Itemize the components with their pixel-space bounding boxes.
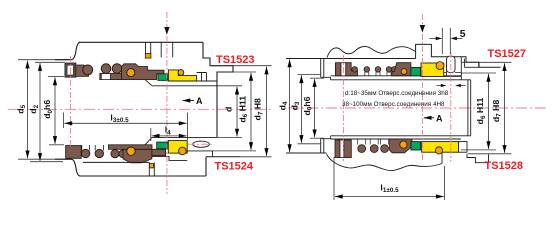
centerline left (8, 108, 273, 110)
svg-text:d2: d2 (28, 104, 40, 113)
spring coil 1 top (101, 64, 111, 74)
gland shelf bottom (206, 156, 240, 158)
spring 3 right (386, 67, 392, 73)
collar left brown bottom right (335, 140, 340, 158)
shaft top right (331, 79, 471, 81)
shaft end right (468, 80, 471, 136)
seat clamp lines top right (444, 59, 462, 77)
RIGHT upper assembly (335, 63, 420, 76)
seat block white bottom right (459, 142, 468, 153)
set screw slot top (146, 42, 151, 53)
svg-text:TS1527: TS1527 (488, 48, 527, 60)
spring 3 bottom right (390, 145, 398, 153)
face green bottom (157, 142, 168, 149)
collar right brown bottom right (344, 140, 352, 158)
gland right outline top right (461, 57, 479, 80)
seat yellow top (168, 70, 196, 81)
drive collar top (65, 63, 76, 77)
housing bottom-left curve step (72, 159, 207, 176)
collar coil bottom right (358, 139, 366, 145)
shaft chamfer top (145, 80, 152, 86)
svg-text:d7 H8: d7 H8 (253, 98, 265, 121)
spring 1 right (364, 67, 370, 73)
seat o-ring top right (436, 62, 444, 70)
spring base brown bottom (109, 145, 153, 150)
gland bore bottom (187, 151, 212, 157)
retainer brown right (392, 63, 411, 76)
set screw orange top (145, 54, 151, 59)
seat yellow top right (421, 63, 444, 77)
flush port slot top (161, 42, 173, 57)
spring coil 2 top (112, 64, 122, 74)
dim d6H11 right (461, 73, 496, 150)
collar screw bars top (66, 64, 68, 77)
spring cup white top (101, 74, 110, 80)
gland lug top right (416, 44, 501, 67)
drive lug brown top (76, 65, 89, 76)
svg-text:d: d (223, 107, 233, 112)
section arrow A left (183, 96, 204, 106)
retainer o-ring top (127, 69, 135, 77)
spring 1 bottom right (370, 139, 378, 145)
retainer brown bottom right (390, 139, 412, 153)
housing bore line bottom (83, 161, 149, 163)
dim d (223, 87, 237, 137)
wavy break outline top right (327, 46, 416, 57)
dim l1 (334, 157, 445, 200)
section arrow A right (424, 113, 443, 123)
sleeve outer top right (331, 75, 462, 77)
collar centerline red right (342, 55, 344, 161)
spring coil 2 bottom (95, 149, 103, 157)
svg-text:d4: d4 (277, 101, 289, 110)
collar left brown right (335, 63, 341, 76)
spring coil 4 bottom (119, 150, 127, 158)
housing top face line right (286, 58, 416, 60)
housing top-left curve step (72, 42, 81, 59)
collar slot right (341, 63, 346, 76)
wavy break outline bottom right (327, 154, 443, 171)
spring base brown top (100, 73, 125, 79)
lug coil top (83, 65, 93, 75)
pin centerline red (450, 52, 452, 162)
svg-text:l4: l4 (165, 125, 171, 137)
anti-rotation pin right (447, 56, 455, 73)
spring coil 3 bottom (111, 150, 119, 158)
sleeve step bottom (152, 157, 187, 161)
svg-text:TS1523: TS1523 (216, 54, 255, 66)
gland outer edge bottom (205, 157, 207, 176)
gland bottom steps right (442, 152, 489, 163)
svg-text:d0h6: d0h6 (42, 100, 54, 119)
svg-text:d:18~35мм Отверс.соединения 3h: d:18~35мм Отверс.соединения 3h8 (345, 90, 449, 97)
dim d0h6 (42, 77, 55, 143)
dim d5 (15, 61, 27, 159)
set screw orange bottom (149, 164, 153, 168)
shaft surface bottom-right (152, 136, 217, 138)
dim l4 (151, 125, 187, 141)
seat o-ring bottom right (435, 147, 442, 154)
svg-text:d6 H11: d6 H11 (475, 97, 487, 124)
svg-text:d5: d5 (15, 104, 27, 113)
top flush arrow left (166, 12, 168, 27)
svg-text:d0h6: d0h6 (302, 96, 314, 115)
face green top (158, 74, 168, 81)
seat yellow bottom (168, 141, 187, 154)
second face line bottom (30, 161, 63, 163)
shaft bottom right (331, 135, 471, 137)
svg-text:d3: d3 (289, 101, 301, 110)
retainer brown top (122, 64, 165, 80)
spring coil 1 bottom (81, 149, 89, 157)
retainer o-ring bottom (127, 147, 135, 155)
flush slot bottom (149, 162, 154, 176)
housing top-left face line (18, 59, 72, 61)
gland port ellipse bottom (193, 141, 210, 147)
housing bottom face line right (286, 152, 327, 154)
gland clamp step lines top (197, 73, 207, 82)
gland top-right stepped profile (203, 42, 233, 137)
dim d2 (28, 62, 64, 161)
svg-text:l1±0.5: l1±0.5 (380, 182, 399, 194)
dim d4 (277, 59, 289, 152)
ellipse centerline (188, 143, 215, 145)
dim d3 (289, 74, 321, 143)
svg-text:TS1528: TS1528 (485, 160, 524, 172)
shaft surface top-right (152, 85, 217, 87)
spring 2 right (375, 67, 381, 73)
seat yellow bottom right (422, 142, 459, 153)
pin width arrows (441, 84, 447, 87)
svg-text:d6 H11: d6 H11 (237, 96, 249, 123)
face green right (411, 67, 421, 75)
spring cup 2 bottom (95, 145, 103, 151)
retainer arm bottom (152, 149, 166, 155)
interface centerline red left (166, 36, 168, 194)
collar screw centerline red left (70, 56, 72, 146)
top flush arrow right (421, 14, 423, 25)
face green bottom right (411, 142, 421, 150)
dim d6H11 (213, 72, 257, 151)
seat o-ring top (178, 70, 184, 76)
housing bottom-left face line (18, 158, 72, 160)
shaft surface bottom-left ext (49, 144, 64, 146)
svg-text:A: A (436, 113, 443, 123)
dim d0h6 right (302, 78, 324, 138)
svg-text:5: 5 (460, 28, 466, 40)
interface centerline red right (421, 34, 423, 162)
spring 4 right (391, 67, 397, 73)
svg-text:A: A (196, 96, 203, 106)
retainer o-ring right (401, 69, 407, 75)
dim 5 (430, 28, 466, 54)
shaft chamfer bottom (145, 137, 152, 144)
gland top bottom edge (197, 80, 217, 82)
shaft surface top-left ext (48, 76, 64, 78)
dim d7H8 right (461, 62, 512, 154)
spring cup 1 bottom (82, 145, 90, 151)
collar right brown right (346, 63, 358, 76)
housing top line (79, 41, 203, 43)
drive collar bottom brown (66, 146, 82, 159)
svg-text:d7 H8: d7 H8 (491, 100, 503, 123)
centerline right (288, 107, 548, 109)
retainer o-ring bottom right (400, 141, 407, 148)
housing left wall right top (321, 59, 331, 80)
svg-text:l3±0.5: l3±0.5 (110, 112, 129, 124)
sleeve outer bottom right (331, 138, 462, 140)
svg-text:TS1524: TS1524 (215, 160, 254, 172)
svg-text:38~100мм Отверс.соединения 4H8: 38~100мм Отверс.соединения 4H8 (342, 101, 445, 108)
spring 2 bottom right (381, 139, 389, 145)
retainer brown bottom (123, 149, 152, 163)
dim d7H8 (210, 66, 272, 157)
collar coil right (352, 67, 358, 73)
seat o-ring bottom (179, 147, 187, 155)
dim l3 (64, 112, 188, 140)
housing left wall right bottom (321, 136, 331, 153)
RIGHT lower assembly (335, 139, 421, 158)
collar slot bottom right (340, 140, 344, 158)
